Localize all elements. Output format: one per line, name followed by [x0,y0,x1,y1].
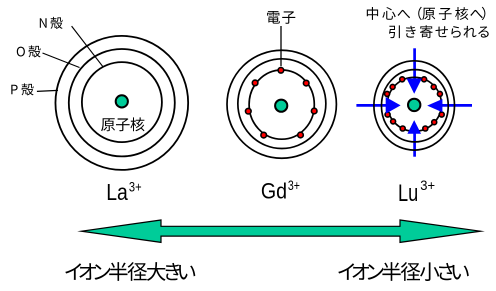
electron [437,91,442,96]
blue arrow left-to-center [386,97,401,114]
electron [385,112,390,117]
caption line 1 pulled toward center [367,7,486,20]
svg-text:La: La [106,179,128,205]
svg-text:3+: 3+ [420,178,435,193]
electron [390,84,395,89]
electron [278,68,284,74]
Lu3+ atom: outer circle [374,61,455,150]
nucleus label genshikaku [101,117,144,131]
La3+ atom: P shell outer circle [55,36,188,170]
green double-headed arrow [82,220,481,242]
electron [439,112,444,117]
electron [246,108,252,114]
electron [400,126,405,131]
electron [298,132,304,138]
svg-text:Gd: Gd [261,179,287,204]
electron label denshi [267,11,295,24]
electron [261,132,267,138]
Lu3+ atom: blue cross vertical line bottom segment [413,133,416,157]
blue arrow bottom-to-center [407,120,421,134]
O-shell label text [17,45,41,57]
Gd3+ nucleus [275,100,287,112]
leader line denshi label to top electron [280,26,282,66]
blue arrow right-to-center [427,99,442,112]
bottom-right caption ion radius small [338,262,469,281]
electron [303,80,309,86]
electron [432,120,437,125]
svg-text:Lu: Lu [398,180,418,207]
Lu3+ atom: inner circle [387,77,441,131]
Lu3+ atom: middle circle [381,70,448,142]
Gd3+ atom: middle circle [238,59,326,149]
electron [423,126,428,131]
electron [391,119,396,124]
N-shell label text [40,17,63,29]
Lu3+ atom: blue cross horizontal line right segment [441,104,472,107]
La3+ atom: N shell inner circle [82,62,162,142]
svg-text:3+: 3+ [288,178,300,193]
La3+ nucleus [116,95,128,107]
electron [431,84,436,89]
bottom-left caption ion radius large [65,262,195,281]
electron [422,77,427,82]
electron [311,108,317,114]
Gd3+ atom: outer circle [227,50,336,158]
Lu3+ nucleus [408,99,420,111]
leader line P-shell label to outer circle [37,90,58,91]
La3+ atom: O shell middle circle [69,49,175,156]
svg-text:3+: 3+ [129,179,142,194]
electron [252,80,258,86]
leader line O-shell label to middle circle [43,53,80,68]
P-shell label text [11,83,33,95]
electron [400,77,405,82]
electron [385,91,390,96]
caption line 2 [389,25,489,38]
Gd3+ atom: inner circle [249,70,314,139]
Lu3+ atom: blue cross horizontal line left segment [356,104,387,107]
Lu3+ atom: blue cross vertical line top segment [413,48,416,79]
blue arrow top-to-center [407,79,422,94]
leader line N-shell label to inner circle [72,26,103,67]
